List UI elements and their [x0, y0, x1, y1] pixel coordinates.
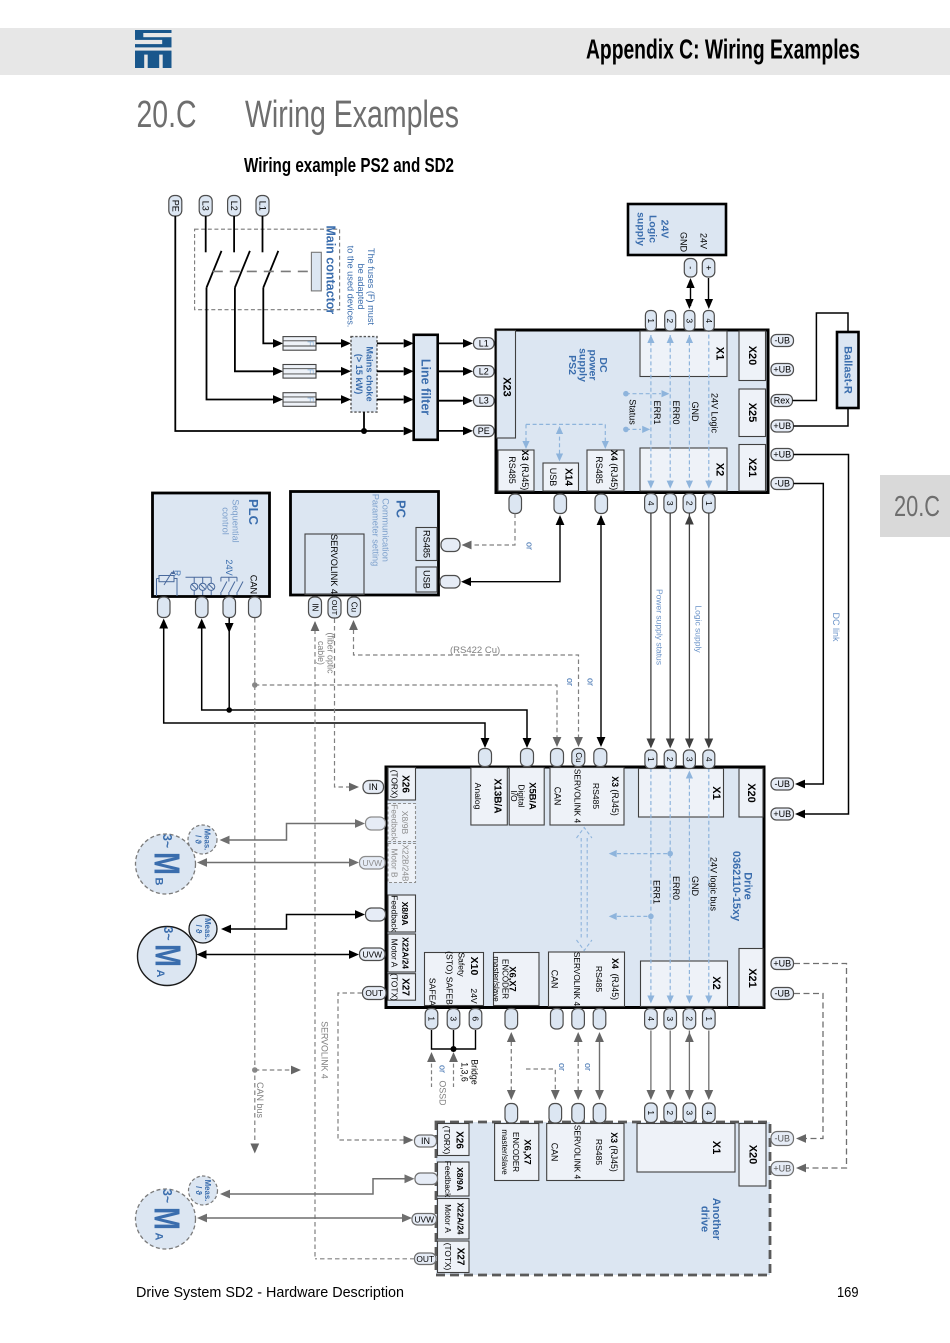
svg-text:X3 (RJ45): X3 (RJ45): [610, 776, 620, 816]
svg-text:X1: X1: [710, 1141, 722, 1154]
svg-text:X26: X26: [454, 1131, 465, 1149]
PS2 X21: [739, 445, 766, 492]
drive X26 TORX: [388, 768, 416, 801]
svg-text:UVW: UVW: [362, 949, 382, 959]
status tap to ERR1: [623, 427, 629, 433]
wire filter to PS2 L1: [438, 342, 463, 344]
drive X6X7 encoder: [494, 953, 540, 1006]
svg-text:4: 4: [704, 318, 714, 323]
svg-text:X20: X20: [746, 346, 758, 366]
drive port analog: [479, 749, 492, 767]
another port CAN: [549, 1104, 562, 1124]
svg-text:-UB: -UB: [775, 1134, 791, 1144]
drive port OUT: [363, 987, 387, 1000]
svg-text:CAN: CAN: [550, 1143, 560, 1162]
svg-text:X27: X27: [400, 978, 411, 996]
wire choke to line filter L3: [377, 399, 404, 401]
another X20: [739, 1124, 766, 1187]
svg-text:4: 4: [704, 1110, 714, 1115]
svg-text:CAN: CAN: [249, 575, 259, 594]
svg-text:M: M: [147, 1207, 188, 1230]
svg-text:Feedback: Feedback: [390, 895, 400, 932]
OSSD input 1: [431, 1057, 433, 1087]
svg-text:supply: supply: [635, 212, 647, 246]
svg-text:X22A/24: X22A/24: [401, 937, 410, 969]
svg-text:3: 3: [684, 757, 694, 762]
svg-text:X4 (RJ45): X4 (RJ45): [610, 958, 620, 1000]
svg-text:Ballast-R: Ballast-R: [842, 346, 854, 394]
wire RS422 Cu: [354, 622, 579, 744]
drive port SERVOLINK bottom: [572, 1009, 585, 1030]
svg-text:24V logic bus: 24V logic bus: [709, 857, 719, 912]
svg-text:drive: drive: [698, 1206, 710, 1232]
svg-text:(STO) SAFEB: (STO) SAFEB: [445, 951, 455, 1005]
svg-text:PS2: PS2: [566, 355, 578, 375]
svg-text:OSSD: OSSD: [438, 1081, 448, 1106]
svg-text:1: 1: [427, 1016, 437, 1021]
svg-text:SERVOLINK 4: SERVOLINK 4: [320, 1021, 330, 1079]
another X20 +UB: [771, 1162, 794, 1176]
PC port Cu: [348, 597, 361, 617]
wire PLC t1 to drive X13B/A: [164, 628, 485, 746]
drive X27 TOTX: [388, 974, 416, 1001]
drive port X6X7: [505, 1009, 518, 1030]
svg-text:RS485: RS485: [594, 456, 604, 484]
terminal L2: [228, 196, 241, 217]
drive X10 pin 6: [469, 1009, 482, 1030]
drive X20 -UB: [771, 778, 794, 790]
svg-text:Wiring example PS2 and SD2: Wiring example PS2 and SD2: [244, 155, 454, 177]
svg-text:Meas.: Meas.: [203, 1180, 212, 1202]
svg-text:X14: X14: [563, 468, 574, 486]
svg-text:Power supply status: Power supply status: [655, 589, 665, 665]
svg-text:X2: X2: [710, 976, 722, 989]
svg-text:-UB: -UB: [775, 989, 791, 999]
another X27 TOTX: [438, 1241, 470, 1273]
svg-text:RS485: RS485: [594, 1139, 604, 1165]
terminal L1: [256, 196, 269, 217]
svg-text:X10: X10: [468, 957, 480, 976]
wire +UB to Ballast-R: [794, 408, 849, 426]
drive X2 pin 4: [645, 1009, 658, 1030]
svg-text:+UB: +UB: [773, 809, 791, 819]
svg-text:3: 3: [665, 1016, 675, 1021]
terminal PS2 X20 -UB: [771, 335, 794, 347]
svg-text:USB: USB: [548, 468, 558, 487]
another X22A/24: [438, 1199, 470, 1240]
svg-text:RS485: RS485: [591, 783, 601, 809]
drive port Cu: [572, 749, 585, 767]
svg-text:CAN: CAN: [553, 787, 563, 806]
svg-text:ERR1: ERR1: [652, 400, 662, 424]
svg-text:ERR0: ERR0: [671, 400, 681, 424]
svg-text:X27: X27: [455, 1248, 466, 1266]
wire DC link +UB: [794, 455, 849, 815]
svg-text:24V: 24V: [469, 988, 479, 1004]
drive X2 pin 3: [664, 1009, 677, 1030]
CAN branch to drive: [252, 682, 258, 688]
drive X20 +UB: [771, 808, 794, 820]
drive port RS485 bottom: [593, 1009, 606, 1030]
wire PE: [175, 216, 403, 431]
svg-text:SERVOLINK 4: SERVOLINK 4: [572, 952, 582, 1007]
svg-text:1: 1: [646, 1110, 656, 1115]
svg-text:-UB: -UB: [775, 779, 791, 789]
drive X1 pin 3: [683, 750, 695, 769]
drive port CAN bottom: [551, 1009, 564, 1030]
svg-text:X26: X26: [400, 775, 411, 793]
terminal L3: [199, 196, 212, 217]
svg-text:ERR0: ERR0: [671, 876, 681, 900]
drive SERVOLINK internal link: [577, 828, 592, 951]
drive X8/9A feedback: [388, 895, 416, 932]
svg-text:20.C: 20.C: [137, 94, 197, 136]
svg-text:X20: X20: [745, 783, 757, 803]
svg-text:1: 1: [646, 318, 656, 323]
another port X6X7: [505, 1104, 518, 1124]
svg-text:3~: 3~: [160, 1189, 175, 1203]
svg-text:0362110-15xy: 0362110-15xy: [730, 851, 742, 922]
fuse F2: [283, 365, 316, 379]
svg-text:F: F: [306, 369, 316, 374]
svg-text:Logic: Logic: [647, 215, 659, 243]
PS2 X23: [497, 331, 516, 439]
wire DC link chain -UB: [794, 994, 823, 1139]
wire PLC 24V t3: [228, 618, 230, 710]
another X3 comm group: [547, 1124, 624, 1181]
svg-text:master/slave: master/slave: [492, 956, 501, 1002]
drive port RS485: [594, 749, 607, 767]
svg-text:/ ϑ: / ϑ: [194, 835, 203, 844]
svg-text:GND: GND: [690, 402, 700, 423]
svg-text:RS485: RS485: [422, 530, 432, 558]
drive X13B/A analog: [471, 768, 507, 826]
PS2 X3 RJ45: [498, 450, 534, 491]
PS2 X14 USB: [543, 463, 579, 491]
drive X4 comm group bottom: [549, 952, 625, 1007]
svg-text:(TORX): (TORX): [390, 770, 400, 799]
wire X4 RS485 to drive X3: [600, 516, 602, 745]
wire filter to PS2 L3: [438, 400, 463, 402]
drive X2 pin 2: [683, 1009, 696, 1030]
PS2 X1 pin 1: [645, 311, 656, 332]
svg-text:ENCODER: ENCODER: [511, 1132, 520, 1172]
junction choke-PE: [363, 412, 365, 431]
svg-text:X4 (RJ45): X4 (RJ45): [609, 450, 619, 491]
wire drive OUT to another IN: [338, 993, 406, 1140]
svg-text:+UB: +UB: [773, 1164, 791, 1174]
PS2 X1: [640, 331, 727, 377]
svg-text:A: A: [154, 970, 166, 978]
drive X22B/24B motor B: [388, 844, 416, 883]
svg-text:IN: IN: [421, 1136, 430, 1146]
svg-text:Sequential: Sequential: [231, 499, 241, 542]
svg-text:OUT: OUT: [365, 988, 383, 998]
PS2 X1 pin 4: [703, 311, 714, 332]
wire filter to PS2 PE: [438, 430, 463, 432]
wire fuse F2 to mains choke: [316, 370, 341, 372]
DC power supply PS2: [496, 330, 768, 493]
drive status tap ERR1: [648, 914, 654, 920]
fuse F3: [283, 393, 316, 407]
PS2 internal signal lines: [628, 328, 720, 489]
svg-text:CAN bus: CAN bus: [255, 1082, 265, 1119]
svg-text:GND: GND: [690, 876, 700, 897]
svg-text:169: 169: [837, 1284, 859, 1301]
drive X20: [739, 769, 763, 818]
svg-text:or: or: [525, 542, 535, 550]
svg-text:Main contactor: Main contactor: [324, 225, 338, 314]
svg-text:F: F: [306, 397, 316, 402]
wire Rex to Ballast-R: [793, 313, 849, 401]
svg-text:X22B/24B: X22B/24B: [401, 845, 410, 882]
drive X1 pin 4: [703, 750, 715, 769]
svg-text:GND: GND: [679, 232, 689, 253]
svg-text:+UB: +UB: [773, 365, 791, 375]
svg-text:or: or: [583, 1063, 593, 1071]
svg-text:IN: IN: [369, 782, 378, 792]
svg-text:Communication: Communication: [381, 498, 391, 562]
wire power supply status 1-4: [650, 513, 652, 747]
bridge wire 1-3-6: [432, 1030, 476, 1049]
svg-text:+UB: +UB: [773, 450, 791, 460]
fuse F1: [283, 337, 316, 351]
header bar: [0, 28, 950, 75]
drive X2: [641, 961, 728, 1007]
CAN branch to another drive: [252, 1067, 258, 1073]
another port UVW: [412, 1214, 437, 1226]
svg-text:X21: X21: [746, 458, 758, 478]
svg-text:L2: L2: [479, 366, 489, 376]
svg-text:Motor A: Motor A: [443, 1204, 453, 1233]
main contactor K1: [195, 216, 340, 314]
svg-text:control: control: [220, 507, 230, 535]
wire another UVW: [204, 1217, 405, 1219]
svg-text:PE: PE: [170, 200, 180, 212]
PS2 X4 RJ45: [587, 450, 624, 491]
svg-text:Meas.: Meas.: [203, 918, 212, 940]
wire PC USB to X14: [466, 517, 560, 582]
PS2 X2 pin 4: [645, 494, 658, 514]
svg-text:or: or: [586, 678, 596, 686]
PLC terminal 2: [196, 597, 209, 618]
another motor A: [136, 1189, 196, 1249]
svg-text:Rex: Rex: [774, 396, 791, 406]
svg-text:Status: Status: [628, 399, 638, 425]
another port feedback: [415, 1173, 438, 1185]
svg-text:OUT: OUT: [416, 1254, 434, 1264]
svg-text:4: 4: [704, 757, 714, 762]
svg-text:1: 1: [704, 501, 714, 506]
PC port OUT: [328, 597, 341, 618]
svg-text:Another: Another: [710, 1198, 722, 1241]
wire another feedback: [229, 1179, 407, 1194]
svg-text:RS485: RS485: [507, 456, 517, 484]
svg-text:X8/9B: X8/9B: [400, 811, 410, 835]
PS2 X25: [739, 389, 766, 437]
drive X21 -UB: [771, 988, 794, 1000]
sensor Meas B: [188, 825, 217, 854]
svg-text:SAFEA: SAFEA: [428, 978, 438, 1006]
svg-text:or: or: [557, 1063, 567, 1071]
svg-text:+: +: [704, 265, 714, 270]
svg-text:20.C: 20.C: [894, 491, 940, 523]
another X1 pin 2: [664, 1103, 677, 1123]
another port OUT: [415, 1253, 437, 1265]
24V logic supply U3: [628, 204, 726, 255]
drive X1 pin 1: [645, 750, 657, 769]
PLC: [153, 493, 270, 597]
mains choke: [351, 337, 377, 413]
wire L3 to fuse: [207, 288, 274, 400]
terminal PS2 X25 +UB: [771, 420, 794, 432]
drive X1: [639, 769, 724, 818]
drive X22A/24 motor A: [388, 934, 416, 972]
another X1: [637, 1124, 735, 1173]
svg-text:X8/9A: X8/9A: [455, 1167, 465, 1191]
svg-text:L2: L2: [229, 201, 239, 211]
svg-text:/ ϑ: / ϑ: [194, 925, 203, 934]
svg-text:X20: X20: [747, 1145, 759, 1165]
svg-text:ERR1: ERR1: [651, 880, 661, 904]
terminal PS2 PE: [474, 425, 495, 436]
svg-text:X1: X1: [714, 347, 726, 360]
logo: [135, 30, 172, 68]
drive port feedback A: [366, 908, 386, 921]
svg-text:RS485: RS485: [594, 966, 604, 992]
svg-text:Cu: Cu: [574, 752, 583, 762]
svg-text:SERVOLINK 4: SERVOLINK 4: [573, 769, 583, 824]
svg-text:3: 3: [684, 1110, 694, 1115]
svg-text:3~: 3~: [160, 834, 175, 848]
terminal PS2 L1: [474, 338, 495, 349]
svg-text:M: M: [148, 944, 189, 967]
drive X2 pin 1: [703, 1009, 716, 1030]
PS2 X4 port: [595, 494, 608, 514]
wire RS485 chain: [599, 1034, 601, 1098]
terminal PS2 L2: [474, 366, 495, 377]
wire choke to line filter L2: [377, 370, 404, 372]
svg-text:PE: PE: [478, 426, 490, 436]
svg-text:master/slave: master/slave: [500, 1129, 509, 1175]
PS2 X2 pin 2: [683, 494, 696, 514]
sidebar tab 20.C: [880, 475, 950, 537]
drive X10 pin 1: [425, 1009, 438, 1030]
svg-text:L3: L3: [479, 396, 489, 406]
svg-text:Drive: Drive: [741, 872, 753, 900]
PS2 X1 pin 3: [684, 311, 695, 332]
PS2 X2 pin 3: [664, 494, 677, 514]
sensor Meas A: [189, 915, 217, 943]
wire X6X7 master-slave: [510, 1034, 512, 1098]
svg-text:/ ϑ: / ϑ: [194, 1186, 203, 1195]
svg-text:X6,X7: X6,X7: [523, 1139, 534, 1165]
drive X8/9B feedback: [388, 804, 416, 842]
svg-text:2: 2: [684, 501, 694, 506]
terminal PS2 L3: [474, 395, 495, 406]
svg-text:3~: 3~: [161, 927, 176, 941]
drive SD2: [386, 767, 764, 1008]
another port IN: [415, 1135, 437, 1147]
drive X1 pin 2: [664, 750, 676, 769]
svg-text:2: 2: [684, 1016, 694, 1021]
PC port USB pill: [440, 576, 460, 589]
wire feedback A: [230, 915, 358, 930]
svg-text:4: 4: [646, 501, 656, 506]
PS2 X1 pin 2: [665, 311, 676, 332]
PLC potentiometer R: [157, 570, 183, 596]
wire another OUT return: [315, 1258, 415, 1260]
PLC 24V contacts: [221, 577, 243, 595]
svg-text:Wiring Examples: Wiring Examples: [245, 94, 459, 136]
svg-text:or: or: [438, 1065, 448, 1073]
PC port RS485 pill: [441, 539, 460, 552]
terminal PE: [169, 196, 182, 217]
drive port UVW A: [360, 948, 386, 961]
terminal 24V-minus: [684, 259, 697, 278]
wire fuse F3 to mains choke: [316, 399, 341, 401]
wire DC link chain +UB: [794, 964, 847, 1169]
wire L1 to fuse: [263, 288, 273, 344]
svg-text:Line filter: Line filter: [419, 359, 433, 415]
svg-text:M: M: [147, 852, 188, 875]
svg-text:Logic supply: Logic supply: [694, 605, 704, 653]
svg-text:2: 2: [665, 318, 675, 323]
wire PC IN return: [314, 622, 316, 1259]
svg-text:(> 15 kW): (> 15 kW): [354, 354, 364, 395]
svg-text:IN: IN: [311, 603, 320, 611]
svg-text:or: or: [565, 678, 575, 686]
svg-text:Safety: Safety: [457, 952, 467, 977]
svg-text:24V: 24V: [659, 220, 671, 239]
svg-text:X25: X25: [746, 403, 758, 423]
PC: [291, 492, 439, 596]
drive X10 safety STO: [425, 953, 484, 1006]
svg-text:PLC: PLC: [246, 499, 261, 526]
svg-text:3: 3: [449, 1016, 459, 1021]
svg-text:OUT: OUT: [330, 600, 339, 616]
PS2 X14 port: [554, 494, 567, 514]
svg-text:Cu: Cu: [350, 602, 359, 612]
PS2 X20: [739, 331, 766, 381]
svg-text:Meas.: Meas.: [203, 829, 212, 851]
svg-text:X21: X21: [746, 968, 758, 988]
wire SERVOLINK chain: [577, 1034, 579, 1098]
svg-text:Motor A: Motor A: [390, 939, 400, 968]
svg-text:X13B/A: X13B/A: [492, 778, 503, 813]
svg-text:cable): cable): [316, 641, 326, 665]
motor B: [136, 834, 196, 894]
svg-text:to the used devices.: to the used devices.: [345, 246, 355, 328]
motor A: [138, 927, 197, 986]
OSSD input 2: [453, 1057, 455, 1087]
svg-text:The fuses (F) must: The fuses (F) must: [366, 248, 376, 326]
svg-text:(TOTX): (TOTX): [390, 973, 400, 1001]
drive port feedback B: [366, 817, 386, 830]
status tap to ERR0: [623, 391, 629, 397]
svg-text:Appendix C: Wiring Examples: Appendix C: Wiring Examples: [586, 34, 860, 65]
svg-text:+UB: +UB: [773, 959, 791, 969]
wire logic chain pins: [650, 1031, 652, 1099]
svg-text:1,3,6: 1,3,6: [460, 1062, 470, 1082]
PS2 X2 pin 1: [703, 494, 716, 514]
another X1 pin 4: [703, 1103, 716, 1123]
svg-text:(fiber optic: (fiber optic: [325, 632, 335, 674]
svg-text:(TOTX): (TOTX): [443, 1243, 453, 1271]
wire feedback B: [228, 824, 357, 841]
wire choke to line filter L1: [377, 342, 404, 344]
another X26 TORX: [438, 1124, 470, 1156]
